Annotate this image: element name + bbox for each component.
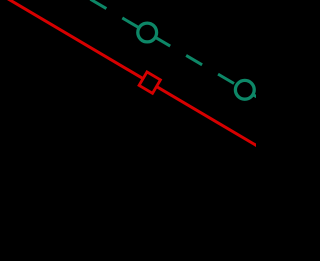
teal dashed line	[90, 0, 261, 100]
red line	[0, 0, 266, 151]
node circle 2	[235, 80, 254, 99]
node circle 1	[138, 23, 157, 42]
vertex marker (red square)	[139, 72, 160, 93]
